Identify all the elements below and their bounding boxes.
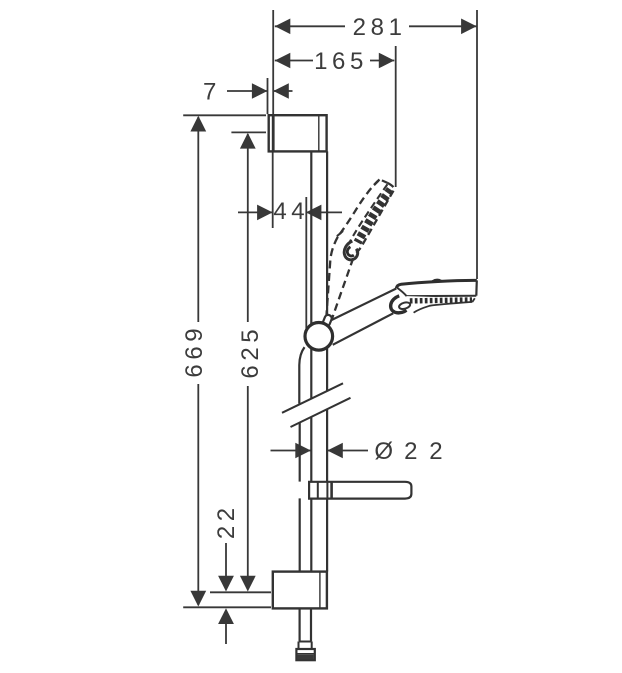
svg-text:22: 22 [213,503,240,539]
head bottom body line [407,295,477,297]
arrowhead 625 bottom [240,576,256,592]
rail left line [311,151,327,571]
arrowhead 669 bottom [190,591,206,607]
arrowhead 669 top [190,116,206,132]
dashed hand shower (upper position) [326,179,394,325]
arrowhead 44 right [306,205,322,221]
hose below bottom bracket [299,608,301,641]
dashed handle right edge [330,258,354,325]
top bracket [269,115,327,151]
dimension 281 line [275,25,345,27]
svg-text:165: 165 [314,48,368,75]
extension line wall left (x=273) [272,10,274,114]
dimension 7 lines [227,90,267,92]
svg-text:281: 281 [353,14,407,41]
spray face bottom outline [414,302,473,313]
arrowhead 625 top [240,133,256,149]
dashed handle left edge [326,237,338,319]
extension line top of 625 (y=132) [231,131,266,133]
arrowhead dia22 right [327,443,343,459]
neck separation arc [398,288,407,296]
svg-text:625: 625 [237,325,264,379]
slider holder nub [322,314,333,327]
arrowhead 281 right [461,19,477,35]
dashed hose connector hook [344,241,357,260]
hose end fitting [296,642,314,661]
break mark diagonals [282,383,351,427]
solid hand shower handle [329,289,397,345]
slider holder circle [305,323,333,351]
head top edge (thick) [396,280,477,288]
arrowhead 281 left [275,19,291,35]
arrowhead 165 right [379,53,395,69]
rail right line [326,151,328,316]
hose left line [299,347,311,641]
dimension 625 vertical line [247,134,249,322]
dimension 44 lines [238,211,273,213]
dimension 22 vertical line [225,543,227,589]
extension line of 165 (x=395.7) [395,46,397,187]
arrowhead 44 left [257,205,273,221]
extension line bottom of 669 (y=607) [183,606,271,608]
dimension 669 vertical line [197,117,199,322]
extension line top of 669 (y=115) [183,114,266,116]
head right edge [475,280,478,295]
arrowhead 22 top (down) [218,576,234,592]
dashed head left edge [338,180,380,237]
extension line below bracket (x=272.7) [272,152,274,228]
spray face [407,296,475,313]
svg-text:Ø: Ø [374,438,397,465]
dimension 22 lower leader [225,612,227,644]
dashed head-handle notch [336,231,343,237]
extension line wall face (x=267.5) [267,78,269,114]
extension line bottom of 625 (y=592) [210,591,271,593]
head top button nub [433,280,442,282]
extension line hose center for 44 (x=306.3) [305,197,307,331]
svg-text:7: 7 [203,79,221,106]
dashed head top tip [374,179,388,185]
svg-text:22: 22 [404,438,454,465]
arrowhead dia22 left [295,443,311,459]
arrowhead 7 left [252,83,268,99]
dashed face right edge [356,183,394,253]
svg-text:44: 44 [273,198,309,225]
arrowhead 22 bottom (up) [218,608,234,624]
bottom bracket [273,572,327,609]
spray selector oval [391,296,411,313]
dimension diameter 22 lines [271,450,311,452]
dashed hose connector inner dark arc [347,247,354,256]
spray nozzles [410,300,472,301]
dimension 165 line [275,60,313,62]
extension line right of 281 (x=477) [476,10,478,279]
solid shower head body [396,280,477,296]
dashed face middle edge [349,184,387,243]
svg-text:669: 669 [181,324,208,378]
dashed face nozzle hatch [358,190,391,243]
soap dish [309,482,411,499]
arrowhead 165 left [275,53,291,69]
arrowhead 7 right [273,83,289,99]
